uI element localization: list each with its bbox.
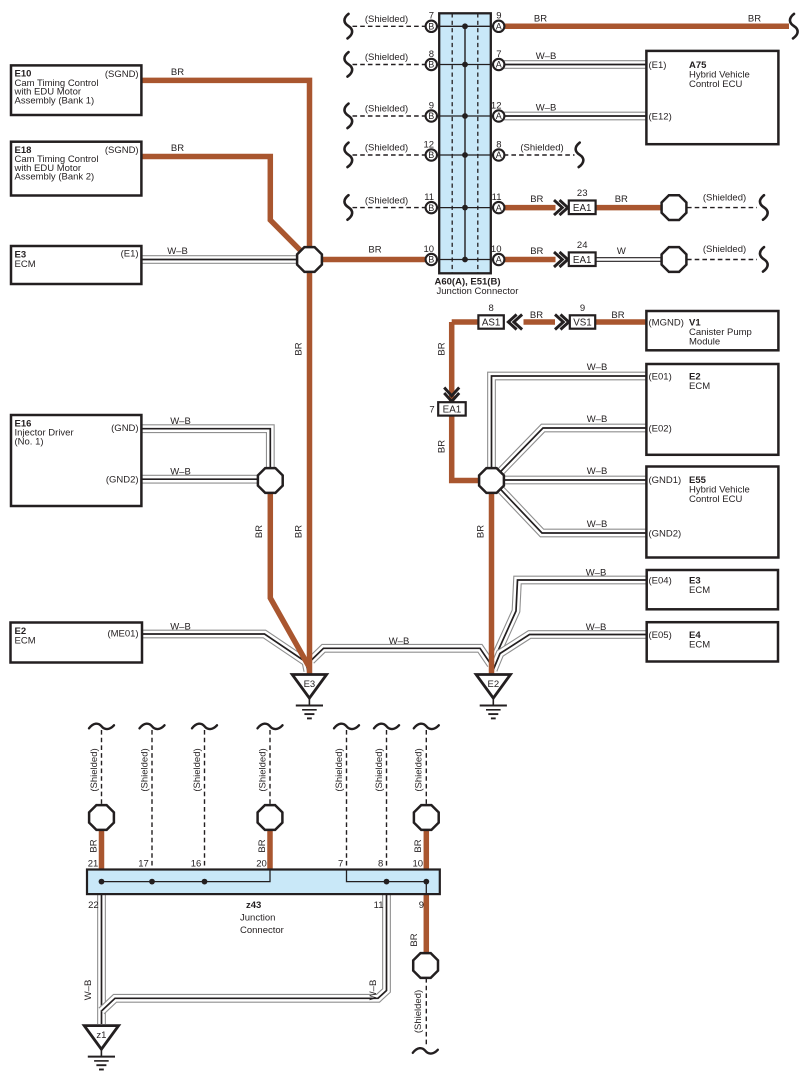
component E55 Hybrid Vehicle Control ECU box [646,467,778,558]
wire shielded row 5 to pin B [353,207,426,209]
connector EA1 pin 7 box [438,402,466,415]
break mark z43 col 4 top [258,724,283,729]
shield octagon z43 pin 9 [413,953,438,978]
break mark z43 col 2 top [140,724,165,729]
svg-text:10: 10 [413,859,424,870]
svg-text:BR: BR [171,67,184,78]
wire W-B E3 (E04) to ground E2 [493,580,647,671]
svg-text:11: 11 [374,900,384,911]
wire shielded row 2 to pin B [353,64,426,66]
svg-text:(E01): (E01) [649,371,672,382]
wire BR shield octagon to z43 pin 20 [267,831,273,870]
svg-text:BR: BR [171,143,184,154]
svg-text:ECM: ECM [15,259,36,270]
svg-text:(SGND): (SGND) [105,69,139,80]
svg-text:17: 17 [138,859,149,870]
svg-text:BR: BR [413,839,424,852]
pin A12 circle [493,110,504,121]
wire BR shield octagon to z43 pin 10 [424,831,430,870]
break mark shielded row 1 left [344,14,352,39]
wire shielded z43 col 21 from break to octagon [101,730,103,804]
svg-text:(Shielded): (Shielded) [703,192,746,203]
svg-text:(E04): (E04) [649,576,672,587]
svg-text:(Shielded): (Shielded) [365,195,408,206]
svg-text:B: B [428,150,434,160]
wire BR A10 to EA1 24 [504,257,556,263]
svg-text:BR: BR [530,194,543,205]
svg-text:(Shielded): (Shielded) [89,748,100,791]
svg-text:BR: BR [530,310,543,321]
svg-text:(No. 1): (No. 1) [15,436,44,447]
component E3 ECM box (right) [647,570,778,609]
break mark z43 col 6 top [374,724,399,729]
break mark z43 col 1 top [89,724,114,729]
pin A7 circle [493,59,504,70]
svg-text:(E1): (E1) [121,248,139,259]
svg-text:(GND1): (GND1) [649,475,682,486]
wire BR z43 pin 9 to shield octagon [424,894,430,953]
break mark z43 col 3 top [192,724,217,729]
svg-text:E3: E3 [304,679,316,690]
svg-text:W–B: W–B [170,467,191,478]
svg-text:8: 8 [496,139,501,150]
pin B12 circle [426,149,437,160]
junction connector row lines [436,26,494,259]
junction connector A60(A) E51(B) body [439,13,491,273]
wire W-B splice to E55 (GND2) [501,490,647,533]
svg-text:(Shielded): (Shielded) [365,143,408,154]
svg-text:EA1: EA1 [443,405,462,416]
component E18 Cam Timing Control box [11,142,141,196]
svg-text:E2: E2 [487,679,499,690]
wire BR shield octagon to z43 pin 21 [99,831,105,870]
splice octagon E3 group [297,247,322,272]
chevron splice EA1 7 down [444,388,459,402]
svg-text:8: 8 [378,859,383,870]
connector EA1 pin 24 box [569,252,596,266]
svg-text:BR: BR [748,13,761,24]
svg-text:8: 8 [429,49,434,60]
svg-text:(E1): (E1) [649,60,667,71]
svg-text:(Shielded): (Shielded) [334,748,345,791]
wire BR E16 splice down to ground E3 [270,493,308,666]
wire BR A11 to EA1 23 [504,205,556,211]
wire W-B z43 pin 11 to ground z1 [102,894,387,1011]
svg-text:24: 24 [577,240,588,251]
svg-text:(Shielded): (Shielded) [365,14,408,25]
wire shielded below z43 pin 9 octagon [425,978,427,1045]
svg-text:A: A [496,255,502,265]
wire W EA1 24 to shield octagon [596,257,662,262]
chevron splice VS1 right [555,315,569,330]
wire BR E10 (SGND) down to ground E3 [141,80,309,674]
wire W-B E4 (E05) to ground E2 [494,635,647,670]
svg-text:BR: BR [294,342,305,355]
svg-text:11: 11 [424,192,434,203]
break mark below z43 pin 9 [413,1048,438,1053]
wire W-B A12 to A75 (E12) [504,112,647,121]
break mark shielded row 4 left [344,143,352,168]
wire shielded octagon row5 to break [687,207,757,209]
svg-text:23: 23 [577,188,588,199]
svg-text:W–B: W–B [170,416,191,427]
svg-text:21: 21 [88,859,99,870]
wire shielded z43 col 17 [151,730,153,870]
svg-text:20: 20 [256,859,267,870]
svg-text:AS1: AS1 [482,318,501,329]
svg-text:A: A [496,60,502,70]
svg-text:BR: BR [615,194,628,205]
svg-text:(Shielded): (Shielded) [365,104,408,115]
svg-text:Junction Connector: Junction Connector [437,286,519,297]
svg-text:B: B [428,22,434,32]
svg-text:BR: BR [534,13,547,24]
connector VS1 box [570,315,595,328]
pin B7 circle [426,21,437,32]
svg-text:B: B [428,203,434,213]
pin A9 circle [493,21,504,32]
svg-text:10: 10 [424,244,435,255]
svg-text:BR: BR [530,246,543,257]
svg-text:Module: Module [689,337,720,348]
wire shielded row 4 to pin B [353,154,426,156]
svg-text:16: 16 [191,859,202,870]
svg-text:W–B: W–B [587,362,608,373]
svg-text:A: A [496,203,502,213]
svg-text:9: 9 [429,100,434,111]
break mark z43 col 5 top [334,724,359,729]
svg-text:W–B: W–B [368,980,379,1001]
svg-text:(Shielded): (Shielded) [413,990,424,1033]
svg-text:BR: BR [257,839,268,852]
svg-text:9: 9 [580,303,585,314]
wire W-B E16 (GND) to splice [141,429,270,469]
splice octagon E2 group [479,468,504,493]
component A75 Hybrid Vehicle Control ECU box [646,51,778,144]
svg-text:(Shielded): (Shielded) [192,748,203,791]
svg-text:BR: BR [409,933,420,946]
wire shielded A8 to break [504,154,575,156]
wire W-B splice to E55 (GND1) [504,476,647,485]
svg-text:B: B [428,255,434,265]
svg-text:ECM: ECM [689,585,710,596]
svg-text:EA1: EA1 [573,255,592,266]
component E2 ECM box (right) [646,364,778,455]
svg-text:W–B: W–B [170,622,191,633]
svg-text:(SGND): (SGND) [105,145,139,156]
svg-text:Control ECU: Control ECU [689,79,742,90]
svg-text:7: 7 [429,11,434,22]
chevron splice AS1 left [508,315,522,330]
connector AS1 box [478,315,503,328]
svg-text:VS1: VS1 [573,318,592,329]
z43 bus junction dots [99,879,430,885]
wire W-B A7 to A75 (E1) [504,60,647,69]
svg-text:(MGND): (MGND) [649,318,684,329]
svg-text:BR: BR [611,310,624,321]
svg-text:9: 9 [496,11,501,22]
svg-text:BR: BR [437,440,448,453]
svg-text:BR: BR [368,244,381,255]
svg-text:W–B: W–B [587,519,608,530]
svg-text:12: 12 [424,139,435,150]
junction connector internal bus [464,26,466,259]
svg-text:BR: BR [475,525,486,538]
svg-text:(Shielded): (Shielded) [703,244,746,255]
wire BR EA1 23 to shield octagon [596,205,662,211]
svg-text:(GND2): (GND2) [649,528,682,539]
component V1 Canister Pump Module box [646,311,778,350]
wire BR VS1 to V1 (MGND) [595,319,646,325]
svg-text:(GND): (GND) [111,423,138,434]
svg-text:ECM: ECM [15,636,36,647]
pin B11 circle [426,202,437,213]
wire shielded z43 col 10 from break to octagon [425,730,427,804]
chevron splice EA1 24 [554,252,568,267]
shield octagon z43 pin 20 [258,805,283,830]
shield octagon z43 pin 21 [89,805,114,830]
pin B8 circle [426,59,437,70]
wire BR splice octagon to B10 [323,257,426,263]
pin B9 circle [426,110,437,121]
break mark shielded row 6 right [760,247,768,272]
wire shielded row 1 to pin B [353,25,426,27]
wire BR splice down to ground E2 [489,493,495,675]
junction connector inner dashed lines [452,13,478,273]
svg-text:B: B [428,111,434,121]
z43 internal bus right [347,870,427,895]
svg-text:9: 9 [419,900,424,911]
svg-text:BR: BR [437,342,448,355]
svg-text:W–B: W–B [587,466,608,477]
svg-text:8: 8 [488,303,493,314]
wire BR down to EA1 7 [449,322,455,402]
wire BR corner to AS1 [452,319,479,325]
wire W-B z43 pin 22 to ground z1 [97,894,106,1024]
svg-text:ECM: ECM [689,640,710,651]
svg-text:(GND2): (GND2) [106,474,139,485]
svg-text:Connector: Connector [240,925,284,936]
wire shielded z43 col 16 [204,730,206,870]
svg-text:7: 7 [338,859,343,870]
component E16 Injector Driver box [11,415,141,506]
svg-text:Junction: Junction [240,913,275,924]
svg-text:BR: BR [294,525,305,538]
svg-text:Control ECU: Control ECU [689,494,742,505]
svg-text:W–B: W–B [586,622,607,633]
wire W-B splice to E2 (E02) [501,428,647,471]
chevron splice EA1 23 [554,200,568,215]
wire shielded z43 col 8 [386,730,388,870]
ground z1 [84,1026,118,1070]
pin A8 circle [493,149,504,160]
break mark shielded row 2 left [344,52,352,77]
wire shielded octagon row6 to break [687,259,757,261]
svg-text:(E12): (E12) [649,111,672,122]
break mark BR wire row 1 right [790,14,798,39]
pin A10 circle [493,254,504,265]
svg-text:BR: BR [254,525,265,538]
splice octagon E16 group [258,468,283,493]
break mark shielded row 5 right [760,195,768,220]
wire shielded z43 col 7 [346,730,348,870]
svg-text:(E02): (E02) [649,423,672,434]
ground E3 [292,675,326,719]
break mark shielded row 5 left [344,195,352,220]
svg-text:12: 12 [491,100,502,111]
svg-text:22: 22 [88,900,99,911]
svg-text:A: A [496,22,502,32]
wire BR AS1 to VS1 [524,319,556,325]
wire BR A9 to right edge [504,24,789,30]
wire BR EA1 7 to splice octagon [452,416,479,481]
svg-text:7: 7 [496,49,501,60]
svg-text:W–B: W–B [389,636,410,647]
svg-text:Assembly (Bank 2): Assembly (Bank 2) [15,172,95,183]
svg-text:(Shielded): (Shielded) [374,748,385,791]
svg-text:(Shielded): (Shielded) [414,748,425,791]
svg-text:z1: z1 [96,1030,106,1041]
svg-text:EA1: EA1 [573,203,592,214]
connector EA1 pin 23 box [569,201,596,215]
svg-text:A: A [496,150,502,160]
component E3 ECM box [11,246,141,284]
svg-text:W: W [617,246,626,257]
svg-text:(Shielded): (Shielded) [139,748,150,791]
svg-text:7: 7 [429,404,434,415]
wire BR E18 (SGND) to splice octagon [141,157,300,251]
svg-text:(Shielded): (Shielded) [257,748,268,791]
junction connector bus junction dots [462,23,468,262]
wire shielded z43 col 20 from break to octagon [269,730,271,804]
svg-text:(ME01): (ME01) [107,629,138,640]
svg-text:ECM: ECM [689,381,710,392]
svg-text:W–B: W–B [167,246,188,257]
svg-text:W–B: W–B [536,51,557,62]
svg-text:BR: BR [88,839,99,852]
svg-text:B: B [428,60,434,70]
svg-text:A: A [496,111,502,121]
break mark shielded row 3 left [344,104,352,129]
ground E2 [476,675,510,719]
svg-text:11: 11 [492,192,502,203]
shield octagon row 5 [662,195,687,220]
wire shielded row 3 to pin B [353,115,426,117]
wire W-B E3 (E1) to splice octagon [141,255,296,264]
svg-text:W–B: W–B [536,103,557,114]
break mark z43 col 7 top [414,724,439,729]
z43 internal bus left [102,870,271,882]
wire W-B splice to E2 (E01) [492,376,647,469]
svg-text:(E05): (E05) [649,630,672,641]
junction connector z43 body [87,870,440,895]
svg-text:(Shielded): (Shielded) [365,52,408,63]
svg-text:Assembly (Bank 1): Assembly (Bank 1) [15,95,95,106]
component E2 ECM box (left) [11,623,143,663]
shield octagon row 6 [662,247,687,272]
component E4 ECM box [647,622,778,661]
wire W-B between ground E3 and ground E2 [311,648,491,664]
wire W-B E16 (GND2) to splice [141,475,258,484]
svg-text:z43: z43 [246,900,261,911]
svg-text:W–B: W–B [586,567,607,578]
shield octagon z43 pin 10 [414,805,439,830]
svg-text:W–B: W–B [587,414,608,425]
component E10 Cam Timing Control box [11,65,141,115]
break mark shielded row 4 right [576,143,584,168]
pin B10 circle [426,254,437,265]
pin A11 circle [493,202,504,213]
svg-text:(Shielded): (Shielded) [520,143,563,154]
wire W-B E2 (ME01) to ground E3 [141,634,307,671]
svg-text:W–B: W–B [83,980,94,1001]
svg-text:10: 10 [491,244,502,255]
